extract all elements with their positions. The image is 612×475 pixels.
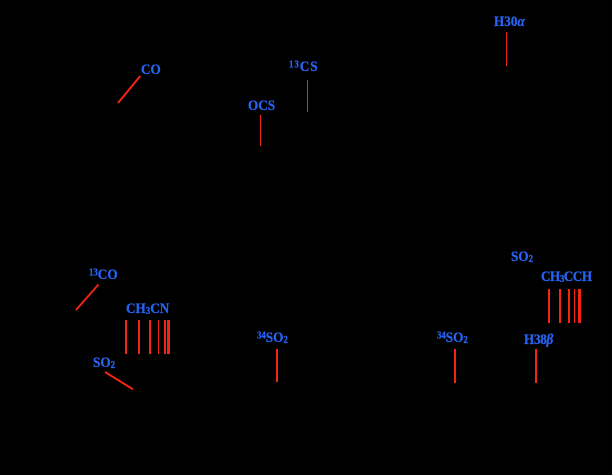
tick line for 13CO (diagonal): [75, 284, 99, 311]
spectral line label 34SO2 (left): [257, 331, 288, 346]
tick lines for CH3CCH: [548, 289, 550, 323]
tick line for CO (diagonal): [117, 76, 141, 104]
tick line for 34SO2 left: [276, 349, 278, 382]
spectral line label CH3CN: [126, 302, 169, 317]
spectral line label 13CO: [89, 268, 118, 283]
spectral line label SO2 (lower left): [93, 356, 115, 371]
spectral line label CH3CCH: [541, 270, 592, 285]
tick line for OCS: [260, 115, 262, 146]
tick line for H38beta: [535, 349, 537, 383]
tick line for 13CS: [307, 80, 309, 112]
spectral line label 13CS: [289, 60, 319, 75]
spectral line label 34SO2 (right): [437, 331, 468, 346]
tick line for SO2 (diagonal): [104, 371, 133, 390]
tick line for 34SO2 right: [454, 349, 456, 383]
spectral line label H30alpha: [494, 15, 525, 30]
spectral line label SO2 (upper right): [511, 250, 533, 265]
spectral line label H38beta: [524, 333, 553, 348]
spectral line label OCS: [248, 99, 275, 114]
spectral line label CO: [141, 63, 161, 78]
tick lines for CH3CN: [125, 320, 127, 354]
tick line for H30alpha: [506, 32, 508, 66]
